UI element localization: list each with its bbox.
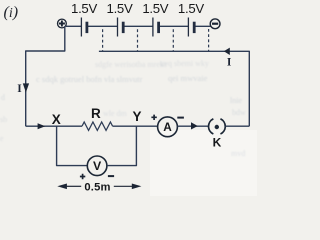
cell B2 (1.5V) <box>118 18 124 37</box>
svg-text:bdw: bdw <box>232 108 246 117</box>
dashed tap line from junction B1-B2 <box>102 29 104 51</box>
voltmeter polarity label - <box>108 175 114 177</box>
resistor R (zigzag X to Y) <box>82 122 113 130</box>
plug key K <box>209 119 226 134</box>
wire: positive terminal down and left to left rail <box>26 26 65 126</box>
cell B3 (1.5V) <box>153 18 159 37</box>
current arrow (pointing right toward key) <box>191 122 198 129</box>
wire: resistor to ammeter (through node Y) <box>113 125 158 127</box>
svg-text:wle dm: wle dm <box>103 109 128 118</box>
wire: cell B2 to cell B3 <box>123 25 152 27</box>
svg-text:X: X <box>52 112 61 127</box>
ammeter A1 <box>158 117 178 137</box>
voltmeter V1 <box>87 156 107 176</box>
battery positive terminal symbol (+) <box>58 19 67 28</box>
svg-text:sdgfe werisotba mrekc: sdgfe werisotba mrekc <box>95 60 168 69</box>
ammeter polarity label + <box>151 115 156 120</box>
svg-text:mvd: mvd <box>231 149 245 158</box>
current arrow (pointing right toward X) <box>38 123 46 129</box>
dashed tap line below negative terminal <box>208 29 210 51</box>
battery negative terminal symbol (-) <box>210 19 220 29</box>
wire: cell B1 to cell B2 <box>87 25 117 27</box>
wire: cell B4 to battery negative terminal <box>194 25 210 27</box>
svg-text:0.5m: 0.5m <box>84 182 110 194</box>
svg-text:sb: sb <box>0 115 7 124</box>
wire: cell B3 to cell B4 <box>159 25 189 27</box>
svg-text:V: V <box>93 159 102 173</box>
svg-text:e: e <box>0 134 4 143</box>
voltmeter polarity label + <box>80 174 85 179</box>
wire: left rail to resistor (through node X) <box>26 125 82 127</box>
svg-text:1.5V: 1.5V <box>107 1 133 16</box>
svg-text:R: R <box>91 106 101 121</box>
dimension arrow right (0.5m span) <box>114 184 142 190</box>
svg-text:Y: Y <box>132 109 141 124</box>
wire: node X down to voltmeter branch <box>57 126 88 165</box>
dimension arrow left (0.5m span) <box>57 184 81 190</box>
svg-text:1.5V: 1.5V <box>178 1 204 16</box>
svg-text:c sdqk gotruel bofn vla slmvu: c sdqk gotruel bofn vla slmvutr <box>36 74 143 84</box>
svg-text:lnie: lnie <box>230 96 242 105</box>
svg-text:uvq sbemi wky: uvq sbemi wky <box>160 59 209 68</box>
cell B1 (1.5V) <box>81 18 87 37</box>
svg-text:1.5V: 1.5V <box>71 1 97 16</box>
wire: battery positive terminal to cell B1 <box>66 25 81 27</box>
wire: key to right rail <box>225 125 249 127</box>
wire: tap bus to right rail <box>99 51 249 126</box>
svg-text:K: K <box>213 135 222 149</box>
svg-text:A: A <box>163 120 172 134</box>
wire: ammeter to key with current arrow <box>177 125 208 127</box>
wire: voltmeter to node Y <box>107 126 136 165</box>
current arrow I (left rail, pointing down) <box>23 83 29 92</box>
current arrow I (top right, pointing left) <box>224 48 230 55</box>
svg-text:(i): (i) <box>4 4 19 21</box>
svg-text:I: I <box>227 56 232 68</box>
cell B4 (1.5V) <box>188 18 194 37</box>
svg-text:qei mwvaie: qei mwvaie <box>168 73 208 83</box>
svg-text:d: d <box>1 93 5 102</box>
dashed tap line from junction B3-B4 <box>172 29 174 51</box>
svg-text:1.5V: 1.5V <box>142 1 168 16</box>
ammeter polarity label - <box>177 117 184 119</box>
dashed tap line from junction B2-B3 <box>137 29 139 51</box>
paper background <box>0 0 257 196</box>
svg-text:I: I <box>17 83 22 95</box>
